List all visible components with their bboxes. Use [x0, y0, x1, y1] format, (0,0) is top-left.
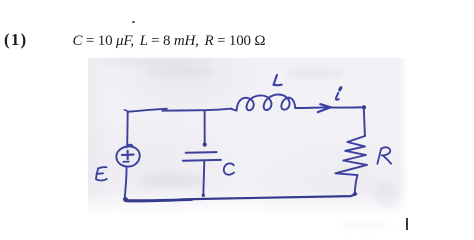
node blob at capacitor top lead end: [203, 143, 207, 147]
node: top-left corner tick: [124, 110, 128, 111]
label C (capacitor): [224, 163, 234, 174]
label i (current) body: [336, 93, 339, 100]
capacitor C1 bottom plate: [183, 159, 221, 162]
minus sign inside source: [123, 161, 128, 163]
label E (source): [96, 167, 107, 180]
wire top rail second segment (overlap jog): [162, 109, 231, 111]
heading number (1): [4, 30, 27, 50]
given values text: [73, 33, 266, 50]
plus sign inside source: [122, 151, 134, 159]
node blob at capacitor bottom lead: [202, 194, 205, 197]
capacitor C1 top plate: [186, 151, 217, 154]
voltage source E circle: [116, 146, 139, 166]
wire left vertical upper (corner to source top): [126, 112, 129, 146]
label R (resistor): [377, 147, 391, 163]
text cursor bar: [406, 218, 408, 230]
wire bottom rail overdraw (double stroke): [126, 200, 192, 201]
current arrow head (i direction): [318, 104, 331, 112]
node blob resistor lead / rail junction: [353, 192, 357, 196]
resistor R1 zigzag: [335, 136, 367, 175]
wire left vertical lower (source bottom to corner): [125, 166, 127, 199]
wire top rail left segment: [128, 109, 167, 112]
label i (current) tick: [340, 88, 341, 90]
stray pen dash above formula: [132, 21, 135, 23]
wire right vertical to resistor: [364, 108, 365, 136]
wire bottom rail: [125, 194, 357, 201]
node blob at top-right corner: [362, 105, 366, 109]
wire top rail right of inductor: [295, 106, 364, 109]
faint bleed-through smudges: [98, 59, 213, 64]
node blob bottom-left corner: [123, 197, 128, 202]
label L (inductor): [273, 75, 281, 85]
photo background of schematic: [88, 58, 407, 216]
inductor L1 coil: [232, 94, 296, 110]
capacitor C1 bottom lead: [203, 160, 204, 195]
voltage source entry hook: [127, 145, 133, 148]
resistor R1 bottom lead: [355, 175, 358, 194]
capacitor C1 top lead: [204, 111, 206, 144]
